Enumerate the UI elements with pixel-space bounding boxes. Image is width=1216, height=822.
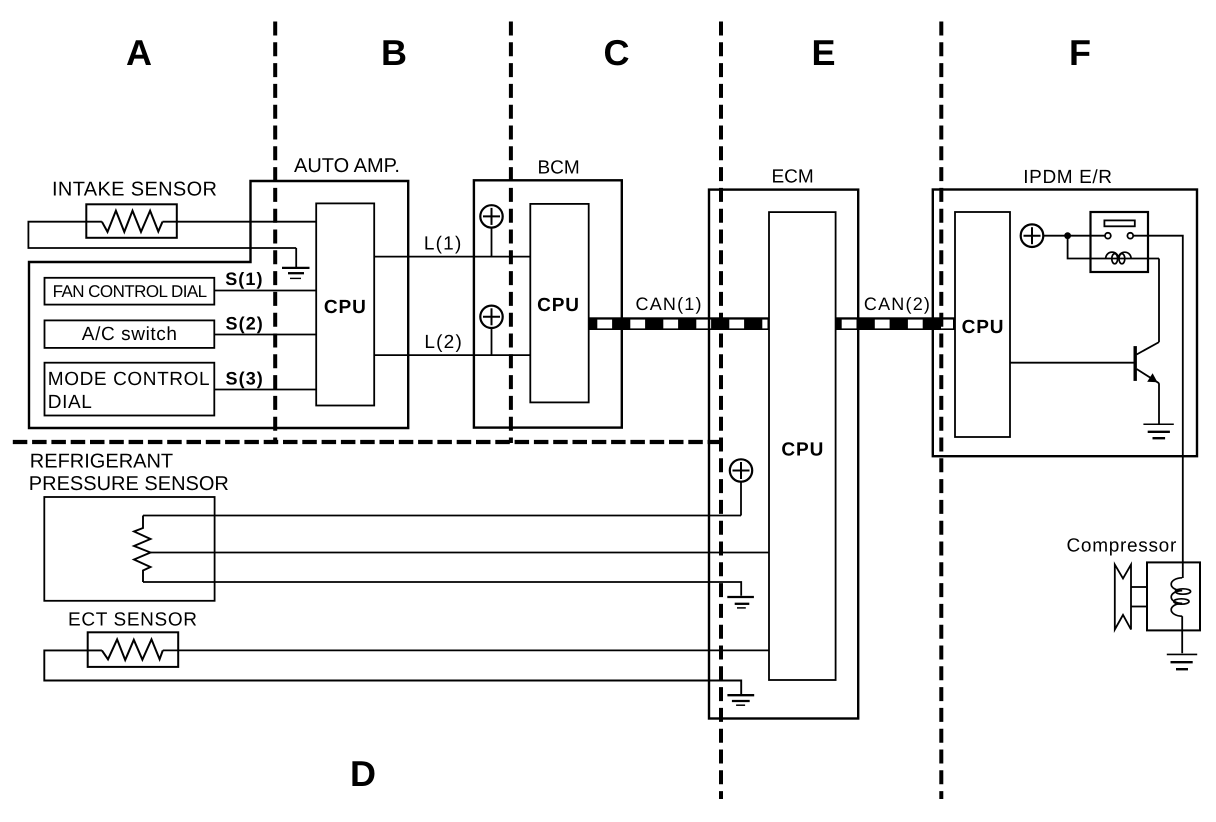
svg-text:BCM: BCM [538, 158, 580, 179]
FAN CONTROL DIAL box [45, 278, 215, 305]
svg-text:AUTO AMP.: AUTO AMP. [294, 155, 400, 177]
boundary dashed line B/C [509, 22, 513, 444]
collector [1137, 342, 1159, 354]
CAN(1) bus [589, 317, 769, 330]
ground (ECM ECT) bars [727, 694, 754, 696]
svg-text:CAN(1): CAN(1) [636, 294, 703, 314]
svg-text:ECT SENSOR: ECT SENSOR [68, 610, 198, 631]
junction dot [1064, 232, 1071, 239]
svg-text:C: C [604, 32, 630, 73]
BCM CPU box [530, 204, 588, 403]
wire: relay contact to compressor [1133, 236, 1183, 578]
wire L(2) [374, 354, 530, 356]
intake sensor resistor box [86, 204, 177, 238]
IPDM CPU box [955, 212, 1010, 437]
compressor relay box [1091, 212, 1149, 272]
relay contact bar [1104, 220, 1134, 226]
relay contact terminal right [1127, 233, 1133, 239]
A/C switch box [45, 320, 215, 348]
svg-text:IPDM E/R: IPDM E/R [1023, 167, 1112, 188]
battery feed 2 (circle plus) [480, 306, 502, 356]
wire: battery to relay contact [1043, 235, 1105, 237]
svg-text:F: F [1069, 32, 1091, 73]
emitter arrowhead [1147, 373, 1157, 382]
refrigerant pressure sensor box [44, 497, 214, 601]
wire: battery to relay coil [1068, 236, 1159, 259]
ground (AUTO AMP) bars [282, 267, 310, 269]
svg-text:S(2): S(2) [226, 314, 264, 334]
boundary dashed line A/B [273, 22, 277, 444]
svg-text:A: A [126, 32, 152, 73]
svg-text:CAN(2): CAN(2) [864, 294, 931, 314]
svg-text:Compressor: Compressor [1067, 536, 1177, 557]
svg-text:CPU: CPU [962, 317, 1005, 338]
svg-text:CPU: CPU [324, 297, 367, 318]
intake sensor resistor zigzag [102, 211, 163, 232]
base wire from CPU [1010, 362, 1134, 364]
svg-text:CPU: CPU [537, 295, 580, 316]
svg-text:D: D [350, 753, 376, 794]
compressor clutch coil [1171, 578, 1190, 616]
wire S(1) [214, 290, 316, 292]
BCM box [474, 180, 622, 427]
svg-text:FAN CONTROL DIAL: FAN CONTROL DIAL [53, 282, 207, 301]
battery feed 1 (circle plus) [480, 205, 502, 256]
boundary dashed line E/F [939, 22, 943, 800]
svg-text:S(3): S(3) [226, 369, 264, 389]
wire L(1) [374, 256, 530, 258]
ECT sensor resistor zigzag [102, 639, 163, 660]
svg-text:DIAL: DIAL [48, 392, 93, 413]
wire: coil to transistor collector [1158, 259, 1160, 343]
svg-text:L(2): L(2) [424, 332, 463, 353]
wire: sensor signal to ECM CPU [151, 552, 770, 554]
relay coil [1106, 252, 1131, 264]
AUTO AMP CPU box [316, 203, 374, 405]
ground (AUTO AMP) stem [295, 248, 297, 268]
boundary dashed line C/E [719, 22, 723, 800]
wire: intake sensor right lead to CPU [163, 221, 317, 223]
ground (transistor) bars [1143, 423, 1173, 425]
wire S(3) [214, 389, 316, 391]
CAN(2) bus [836, 317, 956, 330]
svg-text:A/C switch: A/C switch [82, 324, 178, 345]
wire: ECT ground loop [44, 650, 741, 694]
svg-text:B: B [381, 32, 407, 73]
wire: sensor power from ECM [143, 515, 741, 517]
ground (ECM refrigerant) bars [727, 596, 754, 598]
refrigerant sensor resistor (vertical zigzag) [134, 516, 151, 583]
transistor Q1 [1010, 342, 1159, 424]
A/C control assembly + AUTO AMP enclosure outline [29, 181, 408, 428]
IPDM E/R box [933, 190, 1197, 457]
wire S(2) [214, 334, 316, 336]
boundary dashed line D (horizontal) [13, 440, 720, 444]
compressor belt symbol [1115, 565, 1131, 630]
ECT sensor resistor box [88, 632, 179, 667]
svg-text:INTAKE SENSOR: INTAKE SENSOR [52, 179, 217, 201]
svg-text:L(1): L(1) [424, 234, 463, 255]
wire: intake sensor signal to AUTO AMP CPU [28, 222, 296, 248]
svg-text:REFRIGERANT: REFRIGERANT [30, 450, 173, 472]
belt link lines [1131, 586, 1147, 588]
MODE CONTROL DIAL box [45, 363, 215, 416]
wire: sensor ground to ECM [143, 582, 741, 596]
base bar [1133, 346, 1136, 381]
wire: compressor to ground [1181, 616, 1183, 653]
emitter to ground wire [1158, 383, 1160, 423]
battery feed ECM (circle plus) [730, 459, 752, 515]
ground (compressor) bars [1167, 653, 1197, 655]
wire: ECT signal to ECM CPU [163, 649, 769, 651]
compressor box [1147, 562, 1200, 630]
svg-text:CPU: CPU [781, 440, 824, 461]
relay contact terminal left [1105, 233, 1111, 239]
ECM box [709, 190, 858, 719]
battery feed IPDM (circle plus) [1021, 224, 1044, 247]
emitter [1137, 369, 1159, 383]
svg-text:PRESSURE SENSOR: PRESSURE SENSOR [29, 473, 229, 495]
ECM CPU box [769, 212, 836, 680]
svg-text:MODE CONTROL: MODE CONTROL [48, 369, 210, 390]
svg-text:E: E [811, 32, 835, 73]
svg-text:ECM: ECM [772, 167, 814, 188]
svg-text:S(1): S(1) [225, 269, 263, 289]
